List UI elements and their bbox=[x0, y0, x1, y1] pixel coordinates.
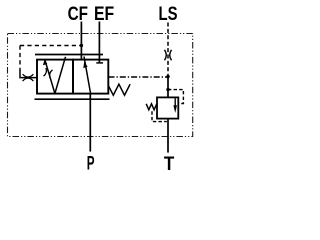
fixed orifice on left pilot bbox=[23, 74, 34, 81]
proportional rail top bbox=[35, 54, 103, 56]
flow path P to CF (left limb) bbox=[45, 60, 55, 93]
LS pilot line (dashed, upper) bbox=[167, 23, 169, 77]
pilot corner to spool left end bbox=[20, 71, 37, 78]
EF blocked port tick bbox=[96, 62, 103, 64]
relief valve spring (w) bbox=[146, 104, 157, 110]
enclosure boundary (dash-dot subplate box) bbox=[8, 34, 193, 137]
relief valve flow arrow bbox=[174, 98, 176, 106]
LS fixed orifice bbox=[165, 50, 172, 61]
svg-text:EF: EF bbox=[94, 4, 114, 25]
CF port line bbox=[80, 22, 82, 60]
LS pilot to spool right (dash-dot) bbox=[109, 76, 169, 78]
relief pilot line (dashed) bbox=[168, 90, 183, 104]
blocked position flow arrow (right box diagonal) bbox=[84, 57, 91, 94]
svg-text:LS: LS bbox=[159, 4, 178, 25]
junction dot LS pilot bbox=[166, 75, 169, 78]
valve body right position box bbox=[73, 60, 108, 94]
junction dot relief pilot bbox=[166, 88, 169, 91]
relief spring drain (dashed) bbox=[152, 111, 167, 121]
pilot line from CF (dashed horizontal) bbox=[20, 45, 81, 47]
valve body left position box bbox=[37, 60, 73, 94]
proportional rail bottom bbox=[35, 98, 110, 100]
P port line bbox=[89, 94, 91, 152]
EF port line bbox=[98, 22, 100, 63]
pilot line (dashed vertical, left) bbox=[19, 46, 21, 72]
LS line down to relief valve bbox=[167, 77, 169, 98]
flow path P to EF (right limb) bbox=[55, 57, 66, 94]
T port line bbox=[167, 119, 169, 153]
arrowhead on CF path bbox=[43, 59, 47, 65]
relief valve body bbox=[157, 97, 178, 118]
svg-text:T: T bbox=[164, 154, 175, 175]
spring (right end of spool) bbox=[108, 84, 130, 95]
svg-text:CF: CF bbox=[68, 4, 88, 25]
junction dot CF pilot bbox=[80, 44, 83, 47]
svg-text:P: P bbox=[87, 154, 95, 175]
arrowhead on right box diagonal bbox=[83, 62, 87, 68]
variable orifice arcs on CF path bbox=[44, 68, 53, 78]
